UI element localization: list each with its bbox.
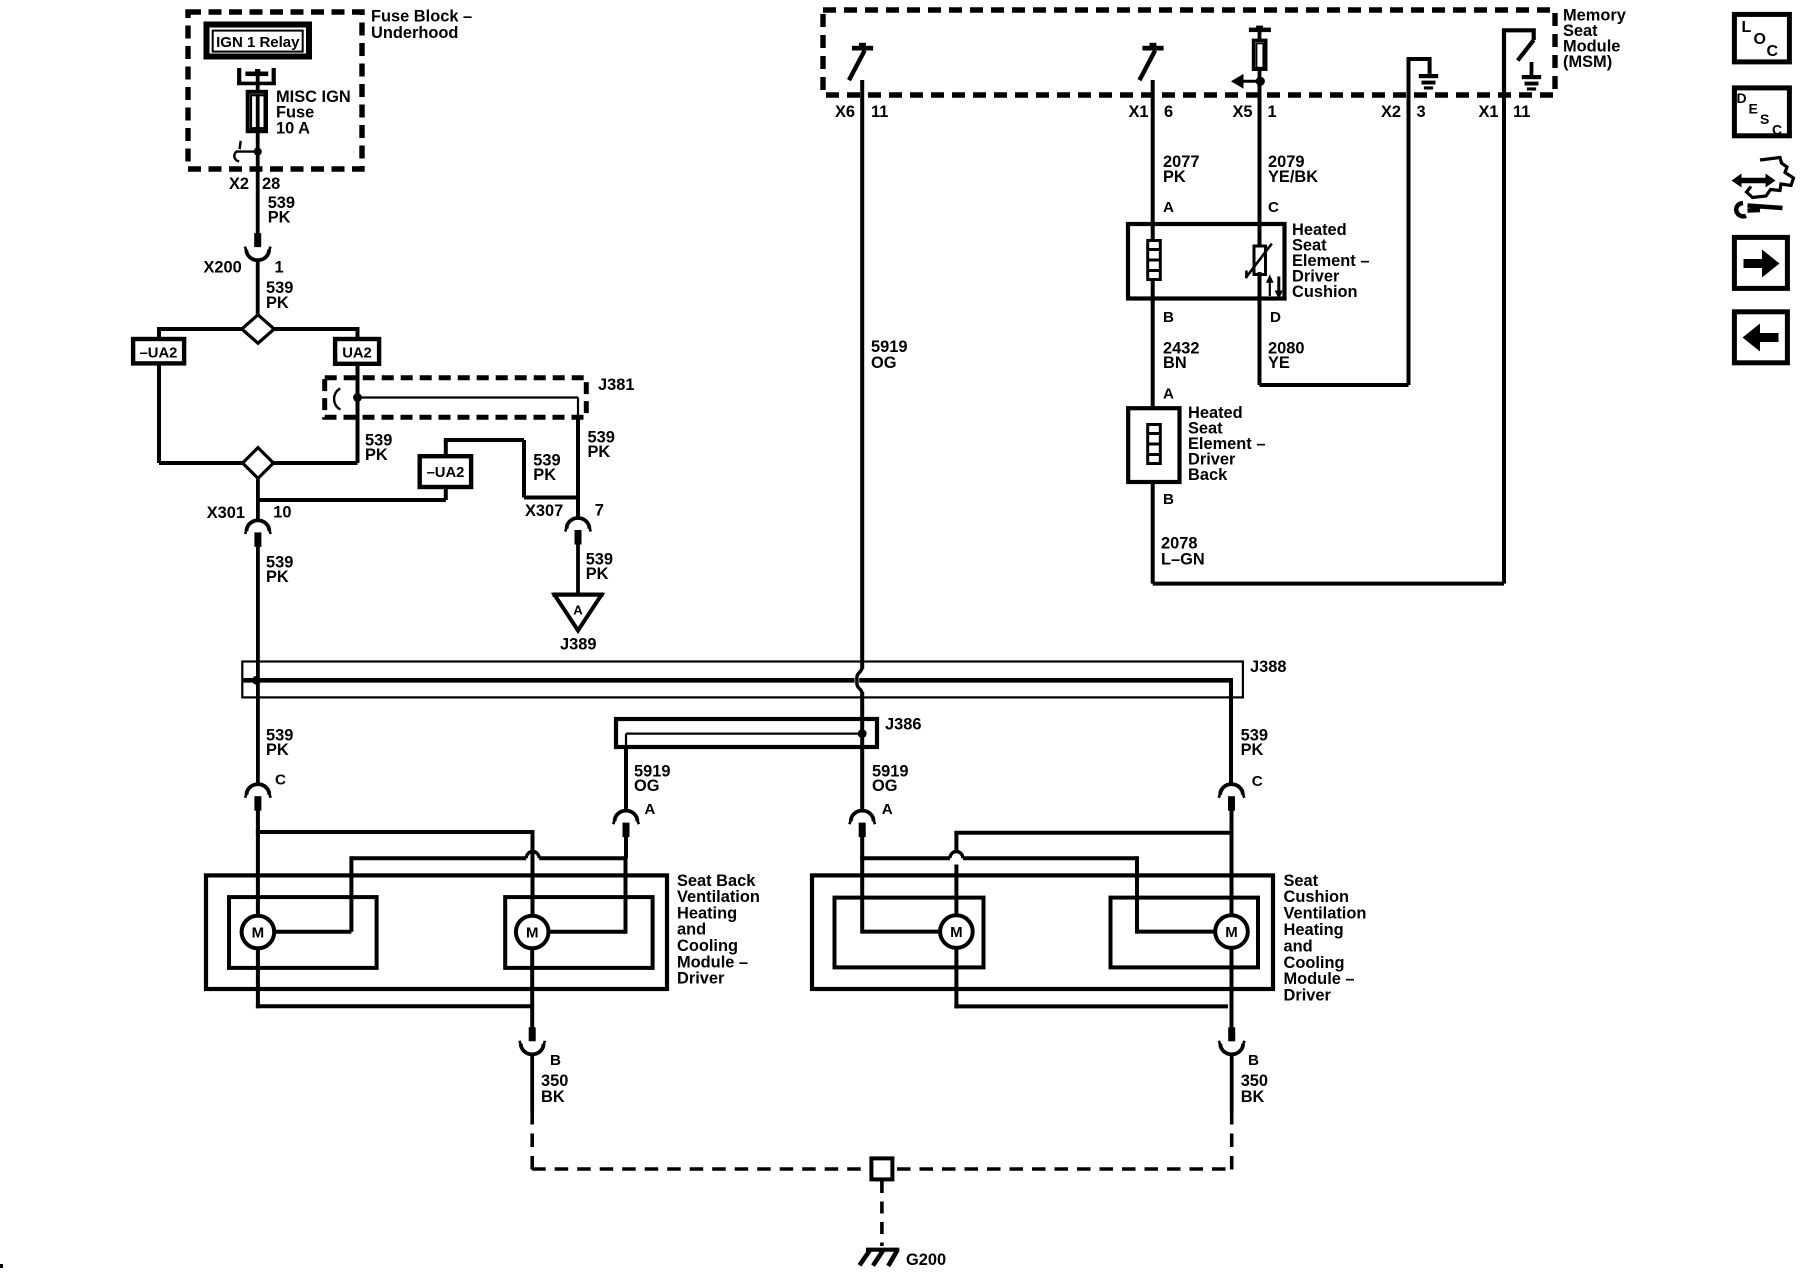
svg-text:D: D (1737, 90, 1747, 106)
wire 5919 OG A right to motors (860, 837, 864, 934)
J381 internal bus (358, 396, 579, 398)
svg-text:and: and (677, 921, 706, 939)
svg-text:A: A (573, 603, 583, 618)
wire UA2 to J381 (356, 363, 360, 397)
relay IGN 1 Relay box (207, 25, 310, 57)
connector C right module (1220, 784, 1243, 795)
heated seat element driver back box (1128, 408, 1179, 482)
pull-up load pin X5-1 (1256, 26, 1263, 29)
wire 5919 OG J386 to right A (860, 734, 864, 812)
svg-text:M: M (526, 925, 539, 942)
memory seat module dashed box (823, 10, 1555, 95)
svg-text:Driver: Driver (1284, 987, 1332, 1005)
svg-text:OG: OG (871, 354, 897, 372)
svg-text:YE: YE (1268, 354, 1290, 372)
connector C left module (247, 784, 270, 795)
svg-text:Module –: Module – (677, 953, 748, 971)
motor M1 (274, 930, 352, 934)
svg-text:C: C (1268, 199, 1279, 216)
fuse output terminal junction (254, 148, 262, 156)
svg-text:28: 28 (262, 175, 280, 193)
cushion heater element (1148, 241, 1161, 280)
connector X301 pin 10 (247, 520, 270, 531)
motor M3 (862, 930, 940, 934)
connector A left module (615, 811, 638, 822)
svg-text:M: M (950, 924, 963, 941)
svg-text:D: D (1270, 309, 1281, 326)
svg-text:PK: PK (588, 443, 611, 461)
svg-text:M: M (252, 925, 265, 942)
icon box DESC (1734, 88, 1789, 136)
wire 2077 PK X1-6 to cushion element (1151, 80, 1155, 240)
wire 539 PK J381 to X307 (576, 417, 580, 519)
svg-text:O: O (1754, 31, 1766, 48)
icon box LOC (1734, 14, 1789, 62)
driver pin X1-6 (1150, 43, 1157, 46)
driver pin X6-11 (859, 43, 866, 46)
svg-text:10: 10 (273, 504, 291, 522)
svg-text:1: 1 (1268, 103, 1277, 121)
svg-text:Cooling: Cooling (1284, 954, 1345, 972)
svg-text:X200: X200 (204, 259, 242, 277)
back heater element (1148, 425, 1161, 464)
svg-text:X1: X1 (1129, 103, 1149, 121)
wire -UA2 to splice S2 (157, 363, 161, 463)
wire 539 PK C right to motors (1230, 811, 1234, 919)
svg-text:L: L (1742, 19, 1752, 36)
J388 bus bar (243, 678, 854, 683)
svg-text:YE/BK: YE/BK (1268, 168, 1318, 186)
off-page triangle A J389 (553, 593, 604, 598)
wire to UA2 (356, 327, 360, 339)
svg-text:10 A: 10 A (276, 119, 310, 137)
svg-text:J388: J388 (1250, 658, 1286, 676)
splice pack J381 dashed box (325, 378, 587, 418)
svg-text:X5: X5 (1233, 103, 1253, 121)
direction arrow X5 (1256, 77, 1265, 86)
svg-text:–UA2: –UA2 (427, 465, 465, 481)
svg-text:(MSM): (MSM) (1563, 53, 1612, 71)
svg-text:Module –: Module – (1284, 970, 1355, 988)
svg-text:7: 7 (595, 502, 604, 520)
svg-text:Heating: Heating (1284, 921, 1344, 939)
svg-text:3: 3 (1417, 103, 1426, 121)
svg-text:C: C (275, 772, 286, 789)
svg-text:X6: X6 (835, 103, 855, 121)
svg-text:1: 1 (275, 259, 284, 277)
wire 539 PK fuse block exit (256, 154, 260, 234)
svg-text:J381: J381 (598, 376, 634, 394)
J386 bus (626, 732, 862, 734)
connector B right (1228, 1027, 1235, 1041)
thermistor arrows (1269, 281, 1271, 296)
svg-text:C: C (1252, 773, 1263, 790)
svg-text:Cooling: Cooling (677, 937, 738, 955)
svg-text:B: B (550, 1052, 561, 1069)
ground G200 (866, 1248, 899, 1252)
internal ground pin X2-3 (1409, 59, 1430, 97)
svg-text:–UA2: –UA2 (140, 346, 178, 362)
svg-text:S: S (1760, 111, 1769, 127)
svg-text:BN: BN (1163, 354, 1187, 372)
heated seat element driver cushion box (1128, 224, 1285, 299)
svg-text:B: B (1248, 1052, 1259, 1069)
svg-text:Ventilation: Ventilation (1284, 905, 1367, 923)
splice pack J386 (616, 719, 877, 747)
svg-text:X1: X1 (1479, 103, 1499, 121)
cushion thermistor (1258, 272, 1262, 302)
svg-text:Seat Back: Seat Back (677, 872, 756, 890)
svg-text:BK: BK (541, 1088, 565, 1106)
wire 2080 YE (1258, 300, 1262, 385)
splice diamond S2 (243, 448, 274, 479)
svg-text:Ventilation: Ventilation (677, 888, 760, 906)
svg-text:Underhood: Underhood (371, 24, 458, 42)
svg-text:B: B (1163, 491, 1174, 508)
connector X307 pin 7 (567, 518, 590, 529)
svg-text:Driver: Driver (677, 970, 725, 988)
seat cushion module box (812, 875, 1273, 989)
junction dot J386 (858, 729, 867, 738)
seat back module box (206, 875, 667, 989)
svg-text:PK: PK (266, 294, 289, 312)
svg-text:C: C (1772, 122, 1782, 138)
relay output terminal (255, 69, 260, 73)
OG crossover jog at J388 (857, 667, 862, 694)
svg-text:BK: BK (1241, 1088, 1265, 1106)
svg-text:PK: PK (365, 446, 388, 464)
switched ground pin X1-11 (1504, 30, 1534, 97)
fuse block - underhood dashed box (188, 12, 362, 169)
right inner motor box (505, 897, 652, 968)
node UA2 (335, 339, 379, 364)
svg-text:Fuse Block –: Fuse Block – (371, 8, 472, 26)
svg-text:E: E (1749, 101, 1758, 117)
left inner motor box (229, 897, 377, 968)
wire 5919 OG to J386 (860, 692, 864, 735)
wire 5919 OG J386 to left A (624, 747, 628, 812)
wire 2432 BN (1151, 298, 1155, 408)
svg-text:Cushion: Cushion (1284, 888, 1350, 906)
icon box arrow right (1734, 237, 1787, 288)
svg-text:OG: OG (634, 777, 660, 795)
svg-text:and: and (1284, 937, 1313, 955)
wire branch to -UA2 second (258, 498, 446, 502)
svg-text:J386: J386 (885, 716, 921, 734)
icon wiring jump arrows (1740, 178, 1769, 184)
svg-text:B: B (1163, 309, 1174, 326)
svg-text:G200: G200 (906, 1251, 946, 1269)
splice pack J388 (242, 662, 1243, 698)
svg-text:Heating: Heating (677, 904, 737, 922)
ground splice block (871, 1158, 892, 1179)
svg-text:X307: X307 (525, 502, 563, 520)
svg-text:M: M (1225, 924, 1238, 941)
connector A right module (851, 811, 874, 822)
svg-text:PK: PK (533, 466, 556, 484)
wire 539 PK J381 to splice S2 (356, 398, 360, 464)
dashed ground wire left (530, 1111, 534, 1171)
node -UA2 (133, 339, 184, 363)
junction dot J381 (353, 393, 362, 402)
svg-text:Cushion: Cushion (1292, 283, 1358, 301)
wire 2078 L-GN (1151, 482, 1155, 584)
svg-text:X301: X301 (207, 504, 245, 522)
svg-text:PK: PK (1241, 741, 1264, 759)
wire 539 PK J388 right drop (1229, 678, 1233, 786)
svg-text:11: 11 (871, 103, 888, 121)
svg-text:6: 6 (1164, 103, 1173, 121)
motor M4 (1137, 930, 1215, 934)
junction dot J388 left (252, 676, 261, 685)
svg-text:PK: PK (266, 568, 289, 586)
left inner motor box right module (835, 898, 984, 968)
wire 350 BK left (530, 1054, 534, 1111)
svg-text:X2: X2 (1381, 103, 1401, 121)
page corner mark (0, 1264, 3, 1268)
wire 5919 OG from X6-11 (860, 80, 864, 669)
svg-text:Back: Back (1188, 466, 1228, 484)
icon box arrow left (1734, 312, 1787, 363)
wire 539 PK C to motors (256, 811, 260, 919)
node -UA2 second (420, 456, 471, 487)
svg-text:IGN 1 Relay: IGN 1 Relay (216, 34, 300, 51)
wire 539 PK X301 to J388 (256, 547, 260, 786)
svg-text:PK: PK (268, 208, 291, 226)
svg-text:C: C (1767, 43, 1779, 60)
svg-text:L–GN: L–GN (1161, 551, 1205, 569)
wire splice S2 to X301 (256, 478, 260, 520)
wire -UA2 second to X307 (444, 440, 448, 456)
dashed wire to G200 (880, 1181, 884, 1246)
svg-text:A: A (882, 801, 893, 818)
wire 350 BK right (1230, 1054, 1234, 1111)
wire 2079 YE/BK X5-1 to cushion element (1258, 83, 1262, 246)
terminal hook in J381 (334, 388, 340, 409)
svg-text:A: A (1163, 199, 1174, 216)
svg-text:11: 11 (1513, 103, 1530, 121)
svg-text:OG: OG (872, 777, 898, 795)
svg-text:X2: X2 (229, 175, 249, 193)
splice diamond S1 (159, 327, 243, 331)
fuse MISC IGN 10 A (248, 92, 266, 131)
wire motors to B left (256, 948, 260, 1008)
connector X200 pin 1 (254, 233, 261, 247)
svg-text:UA2: UA2 (342, 346, 372, 362)
wire 539 PK X307 to J389 (576, 544, 580, 596)
connector B left (529, 1027, 536, 1041)
svg-text:PK: PK (266, 741, 289, 759)
svg-text:Seat: Seat (1284, 872, 1319, 890)
motor M2 (548, 930, 626, 934)
wire motors to B right (954, 948, 958, 1009)
right inner motor box right module (1111, 898, 1259, 968)
dashed ground wire right (1230, 1111, 1234, 1171)
wire 5919 OG A to motors (624, 837, 628, 858)
svg-text:A: A (644, 801, 655, 818)
svg-text:PK: PK (586, 565, 609, 583)
wire to -UA2 (157, 327, 161, 339)
svg-text:J389: J389 (560, 636, 596, 654)
wire 539 PK X200 to splice (256, 260, 260, 316)
svg-text:PK: PK (1163, 168, 1186, 186)
svg-text:A: A (1163, 386, 1174, 403)
